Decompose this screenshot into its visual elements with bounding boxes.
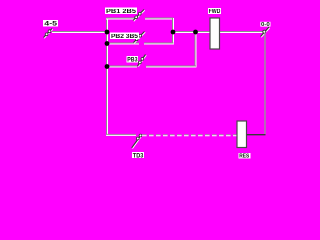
svg-text:4-5: 4-5 — [44, 22, 58, 28]
wire: riser x=195.5 row B to row D — [195, 32, 196, 68]
wire: row D right segment y=66.5 — [146, 66, 196, 67]
svg-text:PB2 3B5: PB2 3B5 — [111, 34, 139, 40]
wire: bottom row solid y=134.5 from bus to contact — [106, 134, 136, 135]
wire: right drop x=265 from OL to bottom — [264, 33, 266, 135]
node junction (107,43.5) — [105, 41, 110, 46]
contact PB3 (row D) — [138, 55, 147, 67]
wire: riser x=173 from row A to row C — [173, 18, 174, 45]
wire: row B coil to OL y=32 — [220, 32, 263, 33]
box RES (bottom right) — [237, 121, 247, 148]
label FWD (coil) — [208, 8, 221, 15]
label PB1 2B5 (row A) — [105, 8, 137, 16]
label PB3 (row D) — [127, 56, 139, 64]
label PB2 3B5 (row C) — [110, 33, 139, 41]
node junction (173,32) — [171, 30, 176, 35]
svg-text:PB3: PB3 — [127, 58, 138, 64]
label 0-0 (overload) — [260, 22, 270, 28]
wire: left rung horizontal y=32 from switch to bus — [52, 32, 107, 33]
switch S1 (left disconnect) — [44, 29, 53, 39]
contact TD3 (bottom, blade below wire) — [132, 134, 142, 148]
node junction (107,66.5) — [105, 64, 110, 69]
wire: vertical bus x=107 — [107, 18, 108, 136]
svg-text:PB1 2B5: PB1 2B5 — [106, 9, 137, 15]
coil FWD box — [210, 18, 220, 49]
svg-text:FWD: FWD — [209, 9, 221, 15]
wire: row D left segment y=66.5 — [107, 66, 137, 67]
wire: row C right segment y=43.5 — [144, 43, 174, 44]
contact PB2 (row C) — [134, 32, 146, 44]
svg-text:TD3: TD3 — [133, 153, 144, 159]
wire: bottom right link box to drop y=134.7 — [247, 134, 266, 136]
label 4-5 (left switch) — [43, 20, 58, 28]
contact PB1 (row A) — [133, 10, 145, 22]
svg-text:0-0: 0-0 — [261, 22, 270, 28]
overload OL contact at right corner — [261, 27, 270, 37]
label RES (bottom box) — [239, 153, 251, 160]
wire: bottom dashed segment y=135 — [142, 135, 237, 136]
wire: row A left segment y=18.5 — [106, 18, 136, 19]
svg-text:RES: RES — [239, 154, 249, 160]
label TD3 (bottom contact) — [132, 152, 144, 159]
node junction (195.5,32) — [193, 30, 198, 35]
wire: row C left segment y=43.5 — [107, 43, 139, 44]
node junction (107,32) — [105, 30, 110, 35]
wire: row A right segment y=18.5 — [145, 18, 174, 19]
wire: row B main from node to coil y=32 — [173, 32, 211, 33]
